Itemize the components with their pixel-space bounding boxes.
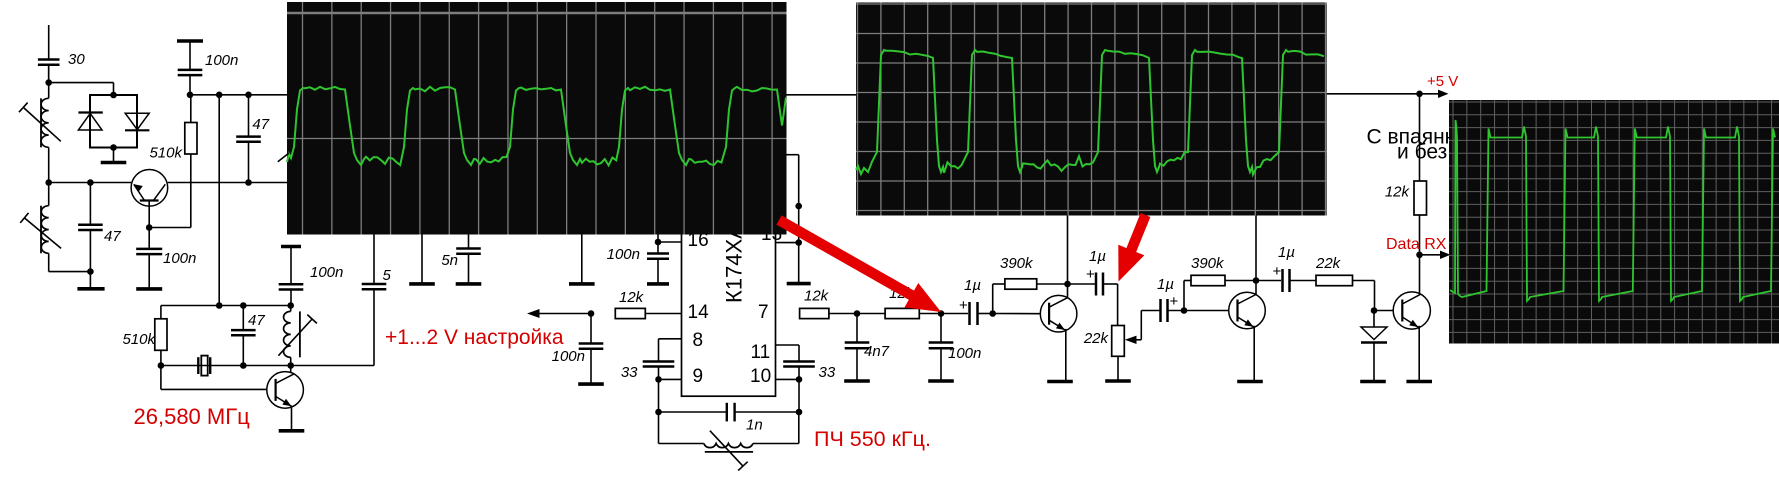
capacitor C18 1u xyxy=(1096,273,1103,296)
wire Q4 base xyxy=(1184,310,1229,312)
svg-text:8: 8 xyxy=(693,330,704,351)
oscilloscope screen 2 xyxy=(856,3,1327,216)
svg-text:1µ: 1µ xyxy=(1157,276,1174,293)
svg-text:1µ: 1µ xyxy=(1278,244,1295,261)
node xyxy=(187,92,194,99)
node xyxy=(216,92,223,99)
node top of diode pair xyxy=(110,92,117,99)
svg-text:390k: 390k xyxy=(1000,255,1034,272)
wiper of R7 xyxy=(1125,336,1137,344)
ground xyxy=(136,287,162,291)
wire Q2 base xyxy=(160,366,162,390)
node xyxy=(989,310,996,317)
svg-text:100n: 100n xyxy=(310,264,343,281)
svg-text:100n: 100n xyxy=(163,250,196,267)
capacitor C12 33 xyxy=(643,362,675,367)
capacitor C1 30 xyxy=(38,60,60,65)
wire stub at scope1 left xyxy=(278,153,289,162)
wire pin 13 xyxy=(776,242,799,244)
wire xyxy=(48,65,50,99)
ground xyxy=(89,272,91,288)
wire xyxy=(48,147,50,182)
wire xyxy=(149,227,191,229)
trimmer arrow of L3 xyxy=(278,315,316,356)
transistor Q5 xyxy=(1393,292,1430,329)
wire Q5 collector xyxy=(1419,255,1421,295)
diode pair box wires xyxy=(90,95,137,148)
svg-text:26,580 МГц: 26,580 МГц xyxy=(134,404,251,429)
resistor R8 390k xyxy=(1191,275,1225,285)
node xyxy=(87,268,94,275)
wire xyxy=(1117,284,1119,326)
capacitor C19 1u xyxy=(1161,299,1168,322)
wire Q5 base xyxy=(1374,310,1393,312)
node xyxy=(655,409,662,416)
svg-text:К174ХА: К174ХА xyxy=(722,224,747,303)
svg-text:5: 5 xyxy=(383,267,392,284)
wire xyxy=(1290,280,1317,282)
node xyxy=(588,310,595,317)
wire xyxy=(190,95,192,123)
resistor R6 390k xyxy=(1005,279,1037,289)
svg-text:30: 30 xyxy=(68,51,85,68)
wire xyxy=(1225,280,1281,282)
ground xyxy=(1406,380,1432,384)
wire Data RX out xyxy=(1420,254,1444,256)
transistor Q3 xyxy=(1040,295,1077,332)
svg-text:и без: и без xyxy=(1397,141,1447,164)
svg-text:47: 47 xyxy=(252,116,269,133)
node xyxy=(158,362,165,369)
svg-text:12k: 12k xyxy=(1385,184,1411,201)
capacitor C5 100n xyxy=(136,249,162,254)
ground column xyxy=(421,234,423,283)
svg-text:12k: 12k xyxy=(804,288,830,305)
diode VD1 xyxy=(78,113,102,131)
ground xyxy=(1360,380,1386,384)
node xyxy=(216,302,223,309)
wire xyxy=(645,313,681,315)
capacitor C15 4n7 xyxy=(856,314,858,343)
oscilloscope screen 3 xyxy=(1449,100,1779,344)
svg-text:510k: 510k xyxy=(122,331,156,348)
ground column xyxy=(581,234,583,283)
node xyxy=(146,224,153,231)
wire xyxy=(1037,283,1096,285)
node xyxy=(938,310,945,317)
node A junction xyxy=(45,79,52,86)
svg-text:22k: 22k xyxy=(1083,330,1110,347)
svg-text:ПЧ 550 кГц.: ПЧ 550 кГц. xyxy=(814,427,931,451)
ground below Q2 xyxy=(279,429,305,433)
ground below diodes xyxy=(113,148,115,163)
wire rail between scopes xyxy=(787,94,857,96)
svg-text:Data RX: Data RX xyxy=(1386,236,1447,253)
svg-text:+1...2 V настройка: +1...2 V настройка xyxy=(385,326,564,349)
wire xyxy=(1183,281,1185,311)
transistor Q4 xyxy=(1229,292,1266,329)
crystal ZQ1 xyxy=(198,356,210,376)
wire pin 11 xyxy=(776,344,800,346)
wire xyxy=(1353,280,1375,282)
wire +5V rail xyxy=(1327,93,1441,95)
node xyxy=(1416,91,1423,98)
capacitor C3 100n xyxy=(177,39,203,43)
resistor R1 510k xyxy=(185,123,197,155)
wire xyxy=(829,313,885,315)
svg-text:+: + xyxy=(959,297,968,314)
svg-text:14: 14 xyxy=(688,302,710,323)
capacitor C17 1u xyxy=(970,302,978,325)
node xyxy=(240,302,247,309)
resistor R7 22k potentiometer xyxy=(1112,326,1125,357)
wire 100n drop xyxy=(148,228,150,249)
annotation arrow 2 xyxy=(1118,215,1145,282)
capacitor C4 47 xyxy=(248,95,250,137)
diode VD3 xyxy=(1373,311,1375,328)
wire xyxy=(49,271,91,273)
inductor L2 variable xyxy=(41,206,48,254)
svg-text:1µ: 1µ xyxy=(964,277,981,294)
node xyxy=(287,362,294,369)
wire rail node xyxy=(45,179,52,186)
wire antenna input xyxy=(48,25,50,60)
wire pin 16 xyxy=(657,234,659,254)
node xyxy=(796,376,803,383)
node xyxy=(1371,307,1378,314)
inductor L4 IF coil xyxy=(658,412,660,444)
svg-text:390k: 390k xyxy=(1191,255,1225,272)
wire Q2 emitter xyxy=(291,408,293,430)
node xyxy=(796,409,803,416)
svg-text:100n: 100n xyxy=(205,52,238,69)
wire Q3 base xyxy=(993,313,1041,315)
svg-text:100n: 100n xyxy=(948,345,981,362)
wire Q5 emitter xyxy=(1418,326,1420,380)
resistor R5 12k xyxy=(885,308,919,318)
capacitor C2 47 xyxy=(89,183,91,225)
arrow to tuning xyxy=(527,309,540,318)
node xyxy=(795,203,802,210)
svg-text:47: 47 xyxy=(104,228,121,245)
svg-text:33: 33 xyxy=(621,364,638,381)
diode VD2 xyxy=(125,113,149,130)
ground xyxy=(1237,380,1263,384)
svg-text:100n: 100n xyxy=(552,348,585,365)
node xyxy=(87,179,94,186)
node xyxy=(655,239,662,246)
node xyxy=(287,302,294,309)
inductor L3 variable xyxy=(284,311,291,357)
resistor R2 510k xyxy=(155,319,167,351)
wire +V rail xyxy=(190,94,288,96)
svg-text:510k: 510k xyxy=(149,145,183,162)
wire Q2 collector xyxy=(290,366,292,373)
svg-text:+: + xyxy=(1273,263,1282,280)
wire collector drop xyxy=(1067,216,1069,298)
trimmer arrow of L4 xyxy=(710,431,748,471)
resistor R9 22k xyxy=(1316,275,1353,285)
wire xyxy=(49,82,114,84)
wire Q1 base lead xyxy=(148,206,150,227)
svg-text:+: + xyxy=(1170,293,1179,310)
capacitor C20 1u xyxy=(1283,269,1290,292)
wire xyxy=(919,313,968,315)
node xyxy=(1416,252,1423,259)
wire oscillator bottom xyxy=(161,365,374,367)
resistor R3 12k xyxy=(615,308,645,318)
node bottom of diode pair xyxy=(110,144,117,151)
capacitor C9 5n xyxy=(468,234,470,249)
wire pin 9 xyxy=(659,378,682,380)
wire base rail xyxy=(49,182,132,184)
ground xyxy=(1047,380,1073,384)
svg-text:1µ: 1µ xyxy=(1089,248,1106,265)
capacitor C6 47 xyxy=(242,306,244,331)
wire long drop to oscillator xyxy=(218,95,220,306)
wire pin 10 xyxy=(776,378,800,380)
resistor R10 12k xyxy=(1414,181,1427,215)
svg-text:+5 V: +5 V xyxy=(1427,73,1458,90)
wire collector drop xyxy=(1255,216,1257,295)
transistor Q1 xyxy=(131,170,168,207)
trimmer arrow of L2 xyxy=(20,213,61,248)
svg-text:+: + xyxy=(1086,266,1095,283)
oscilloscope screen 1 xyxy=(287,2,787,235)
wire xyxy=(373,234,375,284)
wire pin 8 xyxy=(659,338,682,340)
node xyxy=(655,376,662,383)
node xyxy=(1253,277,1260,284)
resistor R4 12k xyxy=(800,308,829,318)
node xyxy=(854,310,861,317)
node xyxy=(245,179,252,186)
wire pot bottom xyxy=(1117,356,1119,380)
capacitor C7 100n xyxy=(281,245,301,249)
wire to +5V xyxy=(1419,94,1421,181)
wire xyxy=(992,284,994,314)
wire xyxy=(160,350,162,365)
op-amp U1 K174XA body xyxy=(682,226,776,396)
ground xyxy=(787,282,811,286)
svg-text:1n: 1n xyxy=(746,417,763,434)
node xyxy=(245,92,252,99)
svg-text:100n: 100n xyxy=(607,246,640,263)
svg-text:33: 33 xyxy=(819,364,836,381)
svg-text:10: 10 xyxy=(750,366,771,387)
annotation arrow 1 xyxy=(779,220,941,312)
svg-text:5n: 5n xyxy=(441,252,458,269)
wire oscillator top xyxy=(161,305,291,307)
capacitor C10 100n xyxy=(590,314,592,344)
wire rail to scope xyxy=(168,182,288,184)
node xyxy=(240,362,247,369)
capacitor C14 1n xyxy=(659,411,727,413)
inductor L1 variable xyxy=(41,98,49,147)
capacitor C16 100n xyxy=(940,314,942,343)
node xyxy=(795,239,802,246)
svg-text:4n7: 4n7 xyxy=(864,343,890,360)
node xyxy=(1064,281,1071,288)
svg-text:47: 47 xyxy=(248,312,265,329)
capacitor C11 100n xyxy=(647,254,669,259)
node xyxy=(1181,307,1188,314)
svg-text:22k: 22k xyxy=(1315,255,1342,272)
svg-text:7: 7 xyxy=(758,302,769,323)
wire side column xyxy=(787,154,799,156)
svg-text:12k: 12k xyxy=(619,289,645,306)
svg-text:11: 11 xyxy=(751,342,771,363)
trimmer arrow of L1 xyxy=(19,103,61,142)
wire Q3 emitter xyxy=(1065,329,1067,380)
transistor Q2 xyxy=(267,372,304,409)
wire Q4 emitter xyxy=(1253,326,1255,380)
svg-text:9: 9 xyxy=(693,366,704,387)
capacitor C8 5 xyxy=(362,284,387,289)
capacitor C13 33 xyxy=(783,362,815,367)
